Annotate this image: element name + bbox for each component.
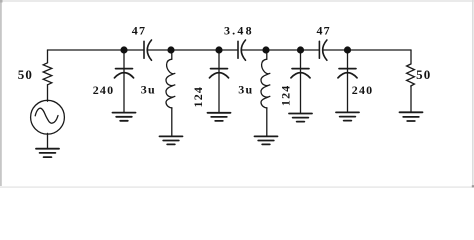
node 4 junction dot [262, 46, 269, 53]
svg-text:47: 47 [132, 24, 146, 38]
wire: resistor to source [47, 85, 49, 101]
capacitor 240 (right shunt) [338, 69, 357, 78]
capacitor 124 (first) [210, 69, 229, 78]
svg-text:240: 240 [352, 83, 374, 97]
svg-text:50: 50 [18, 67, 33, 82]
wire: cap to ground [218, 73, 220, 113]
resistor 50 (load) [407, 64, 415, 86]
svg-text:124: 124 [191, 86, 205, 108]
node 1 junction dot [120, 46, 127, 53]
wire: top segment C3 to load corner [323, 49, 411, 51]
svg-text:3u: 3u [141, 82, 156, 96]
wire: load branch vertical [410, 50, 412, 64]
wire: load resistor to ground [410, 86, 412, 112]
capacitor 240 (left shunt) [115, 69, 134, 78]
inductor 3u (right) [261, 59, 270, 108]
wire: cap to ground [123, 73, 125, 112]
wire: shunt stub at node 3 [218, 50, 220, 73]
inductor 3u (left) [166, 59, 175, 108]
wire: top segment C1 to C2 [147, 49, 238, 51]
wire: inductor to ground [171, 108, 173, 136]
wire: shunt stub at node 6 [347, 50, 349, 73]
capacitor 124 (second) [291, 69, 310, 78]
ground (load) [400, 112, 423, 121]
wire: top segment from source corner to C1 [48, 49, 145, 51]
ground (node 5 shunt) [289, 114, 312, 122]
svg-text:50: 50 [416, 67, 431, 82]
ac source V1 [31, 100, 65, 134]
svg-text:3.48: 3.48 [224, 24, 254, 38]
svg-text:240: 240 [93, 83, 115, 97]
svg-text:47: 47 [316, 23, 330, 37]
ground (node 2 shunt) [160, 136, 183, 144]
wire: source branch vertical [47, 50, 49, 63]
wire: source to ground [47, 133, 49, 148]
node 2 junction dot [167, 46, 174, 53]
wire: inductor to ground [266, 108, 268, 136]
capacitor 47 (series C1) [144, 40, 152, 60]
wire: top segment C2 to C3 [242, 49, 320, 51]
wire: shunt stub at node 2 [171, 50, 173, 59]
wire: cap to ground [300, 73, 302, 113]
ground (node 6 shunt) [336, 112, 359, 120]
node 3 junction dot [215, 46, 222, 53]
ground (node 4 shunt) [255, 136, 278, 144]
ground (node 3 shunt) [208, 113, 231, 121]
wire: shunt stub at node 1 [123, 50, 125, 73]
node 5 junction dot [297, 46, 304, 53]
node 6 junction dot [344, 46, 351, 53]
ground (source) [36, 149, 59, 157]
resistor 50 (source) [43, 63, 52, 85]
wire: shunt stub at node 5 [300, 50, 302, 73]
wire: cap to ground [347, 73, 349, 112]
ground (node 1 shunt) [113, 113, 136, 121]
capacitor 47 (series C3) [319, 40, 327, 60]
svg-text:124: 124 [278, 84, 292, 106]
capacitor 3.48 (series C2) [238, 40, 246, 60]
svg-text:3u: 3u [238, 82, 253, 96]
wire: shunt stub at node 4 [266, 50, 268, 59]
